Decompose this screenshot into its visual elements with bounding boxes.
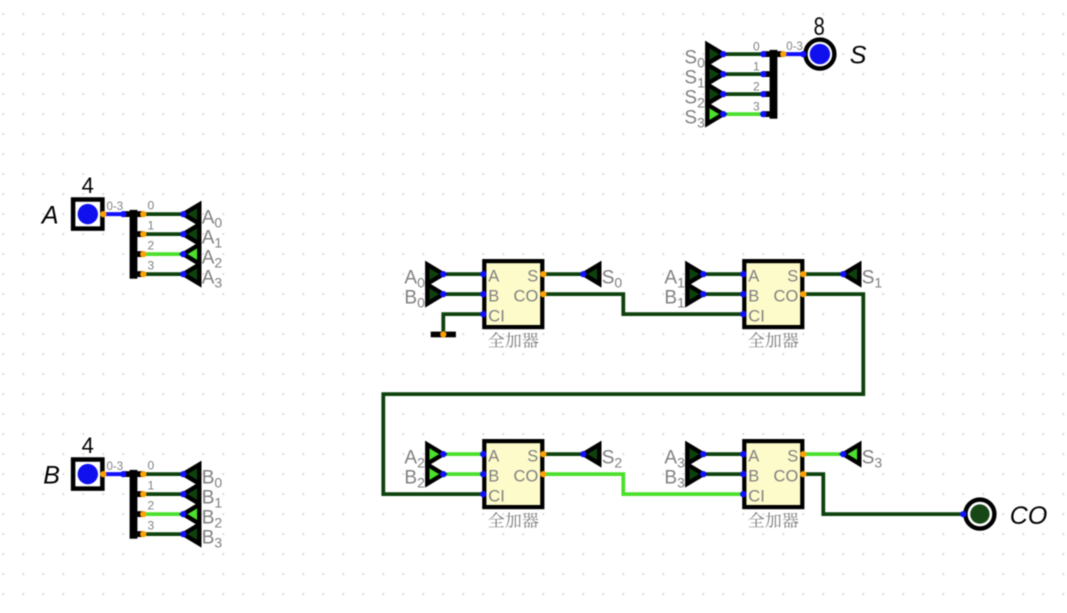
svg-text:S: S	[787, 267, 798, 285]
svg-text:A: A	[748, 447, 759, 465]
svg-text:B: B	[488, 287, 499, 305]
svg-text:S: S	[850, 42, 867, 70]
wire adder4 CO to output CO	[803, 474, 963, 514]
tunnel B3	[687, 465, 703, 484]
svg-text:CI: CI	[748, 307, 765, 325]
tunnel B1	[687, 285, 703, 304]
splitter A 1x4	[130, 210, 138, 279]
wire splitter to tunnel B1	[143, 492, 183, 496]
tunnel B1 (net B1)	[183, 485, 199, 504]
wire adder1 CO to adder2 CI	[543, 294, 743, 314]
svg-text:8: 8	[814, 13, 825, 41]
svg-text:CO: CO	[774, 467, 799, 485]
svg-text:B: B	[43, 462, 60, 490]
wire A2 to adder3	[443, 452, 483, 456]
pin dots adder1 outputs	[540, 271, 546, 277]
svg-text:S: S	[527, 447, 538, 465]
wire A1 to adder2	[703, 272, 743, 276]
bus wire input B to splitter	[103, 472, 123, 476]
svg-text:3: 3	[148, 519, 155, 533]
pin dot output CO	[960, 511, 966, 517]
svg-text:B: B	[748, 467, 759, 485]
svg-text:3: 3	[753, 100, 760, 114]
tunnel A1 (net A1)	[183, 225, 199, 244]
svg-text:1: 1	[148, 219, 155, 233]
wire B2 to adder3	[443, 472, 483, 476]
wire splitter to tunnel A3	[143, 272, 183, 276]
bus wire input A to splitter	[103, 212, 123, 216]
pin dot output S	[800, 51, 806, 57]
tunnel S0 (net S0)	[707, 45, 723, 64]
wire splitter to tunnel B2	[143, 512, 183, 516]
output S (8-bit result)	[805, 40, 834, 69]
svg-text:0-3: 0-3	[107, 201, 124, 213]
wire A0 to adder1	[443, 272, 483, 276]
svg-text:CI: CI	[488, 307, 505, 325]
tunnel A2	[427, 445, 443, 464]
tunnel B2 (net B2)	[183, 505, 199, 524]
svg-text:CO: CO	[514, 287, 539, 305]
wire adder2 S to tunnel S1	[803, 272, 843, 276]
svg-text:B: B	[488, 467, 499, 485]
wire adder1 S to tunnel S0	[543, 272, 583, 276]
wire B1 to adder2	[703, 292, 743, 296]
svg-text:0: 0	[148, 199, 155, 213]
tunnel A2 (net A2)	[183, 245, 199, 264]
wire S2 tunnel to splitter	[723, 92, 763, 96]
wire S0 tunnel to splitter	[723, 52, 763, 56]
svg-text:A: A	[488, 447, 499, 465]
full adder U1	[484, 261, 542, 327]
svg-text:CO: CO	[1010, 502, 1048, 530]
tunnel B0 (net B0)	[183, 465, 199, 484]
svg-text:2: 2	[148, 499, 155, 513]
svg-text:A: A	[488, 267, 499, 285]
wire adder3 CO to adder4 CI	[543, 474, 743, 494]
output CO	[965, 500, 994, 529]
splitter B 1x4	[130, 470, 138, 539]
tunnel B2	[427, 465, 443, 484]
svg-text:S: S	[527, 267, 538, 285]
pin dots adder2 outputs	[800, 271, 806, 277]
tunnel B0	[427, 285, 443, 304]
svg-text:B: B	[748, 287, 759, 305]
input A (4-bit)	[73, 200, 102, 229]
wire adder2 CO to adder3 CI	[383, 294, 863, 494]
tunnel S3 out	[843, 445, 859, 464]
pin dot splitter output	[780, 51, 786, 57]
svg-text:2: 2	[148, 239, 155, 253]
wire splitter to tunnel B0	[143, 472, 183, 476]
svg-text:A: A	[40, 202, 59, 230]
full adder U2	[744, 261, 802, 327]
full adder U3	[484, 441, 542, 507]
splitter S merge 4x1	[770, 50, 778, 119]
wire B0 to adder1	[443, 292, 483, 296]
tunnel S2 (net S2)	[707, 85, 723, 104]
wire S3 tunnel to splitter	[723, 112, 763, 116]
wire A3 to adder4	[703, 452, 743, 456]
svg-text:CI: CI	[748, 487, 765, 505]
svg-text:0: 0	[753, 40, 760, 54]
tunnel S2 out	[583, 445, 599, 464]
svg-text:3: 3	[148, 259, 155, 273]
svg-text:CO: CO	[774, 287, 799, 305]
tunnel A0 (net A0)	[183, 205, 199, 224]
tunnel A3 (net A3)	[183, 265, 199, 284]
wire S1 tunnel to splitter	[723, 72, 763, 76]
tunnel A0	[427, 265, 443, 284]
svg-text:0-3: 0-3	[107, 461, 124, 473]
wire splitter to tunnel A1	[143, 232, 183, 236]
pin dots adder4 outputs	[800, 451, 806, 457]
svg-text:4: 4	[82, 173, 94, 198]
pin dots adder3 outputs	[540, 451, 546, 457]
tunnel A1	[687, 265, 703, 284]
tunnel S1 (net S1)	[707, 65, 723, 84]
svg-text:1: 1	[753, 60, 760, 74]
wire CI1 to ground	[443, 314, 483, 334]
svg-text:0-3: 0-3	[786, 41, 803, 53]
tunnel B3 (net B3)	[183, 525, 199, 544]
ground	[431, 332, 456, 338]
svg-text:A: A	[748, 267, 759, 285]
svg-text:0: 0	[148, 459, 155, 473]
wire splitter to tunnel A2	[143, 252, 183, 256]
svg-text:4: 4	[82, 433, 94, 458]
svg-text:2: 2	[753, 80, 760, 94]
wire splitter to tunnel B3	[143, 532, 183, 536]
tunnel A3	[687, 445, 703, 464]
input B (4-bit)	[73, 460, 102, 489]
svg-text:1: 1	[148, 479, 155, 493]
svg-text:S: S	[787, 447, 798, 465]
svg-text:CI: CI	[488, 487, 505, 505]
wire adder4 S to tunnel S3	[803, 452, 843, 456]
tunnel S0 out	[583, 265, 599, 284]
tunnel S3 (net S3)	[707, 105, 723, 124]
wire adder3 S to tunnel S2	[543, 452, 583, 456]
svg-text:CO: CO	[514, 467, 539, 485]
bus wire splitter to output S	[783, 52, 803, 56]
full adder U4	[744, 441, 802, 507]
tunnel S1 out	[843, 265, 859, 284]
wire splitter to tunnel A0	[143, 212, 183, 216]
wire B3 to adder4	[703, 472, 743, 476]
